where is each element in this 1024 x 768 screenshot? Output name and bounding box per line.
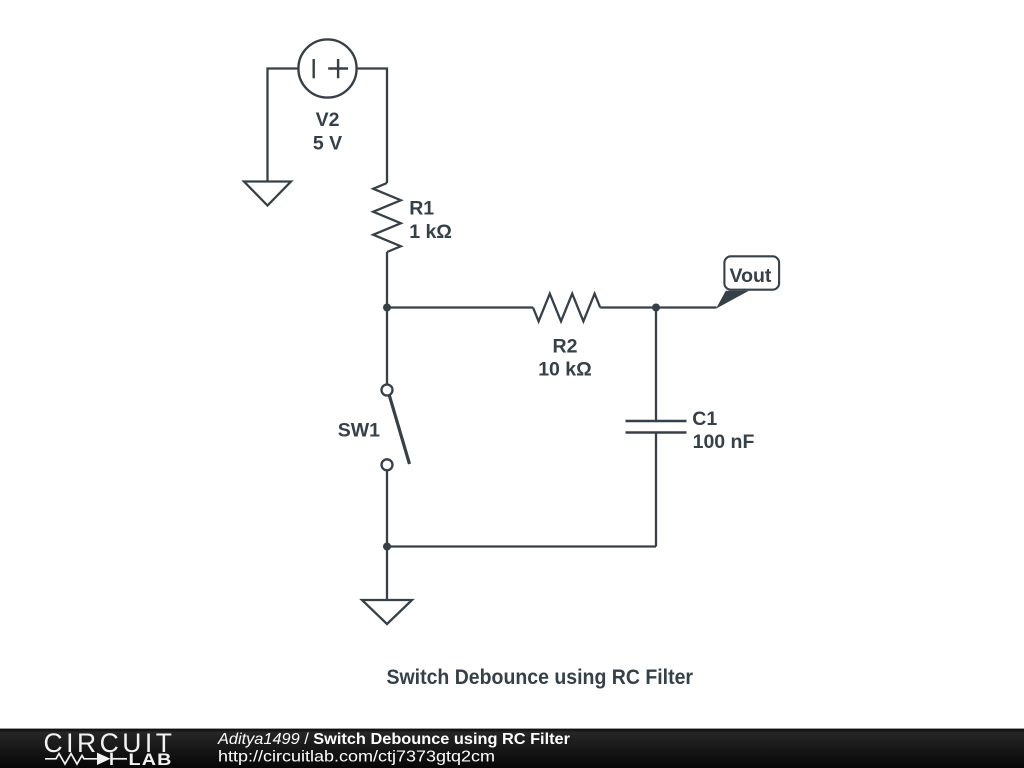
wire C1 bottom plate down (655, 433, 657, 547)
switch SW1 (382, 385, 410, 471)
footer logo diode triangle (97, 753, 111, 765)
wire V2 positive lead to R1 top (356, 69, 387, 184)
svg-text:R2: R2 (553, 335, 578, 357)
V2 minus terminal mark (313, 59, 315, 78)
capacitor C1 (626, 421, 687, 433)
wire node B down to C1 top plate (655, 308, 657, 422)
V2 plus terminal mark (328, 59, 348, 78)
svg-text:C1: C1 (692, 408, 717, 430)
net flag Vout pointer (716, 291, 749, 309)
node C junction dot (383, 543, 391, 551)
wire node B to Vout flag (656, 306, 717, 308)
svg-text:SW1: SW1 (338, 420, 380, 442)
svg-text:1 kΩ: 1 kΩ (409, 221, 452, 243)
wire bottom rail node C to C1 (387, 545, 656, 547)
svg-text:10 kΩ: 10 kΩ (538, 359, 592, 381)
wire node C to ground (386, 547, 388, 601)
wire R1 bottom to node A (386, 252, 388, 308)
wire SW1 bottom terminal to node C (386, 471, 388, 547)
svg-text:100 nF: 100 nF (693, 431, 755, 453)
svg-text:5 V: 5 V (313, 132, 342, 154)
wire node A down to SW1 top terminal (386, 308, 388, 384)
footer bar (0, 729, 1024, 768)
svg-text:Vout: Vout (730, 265, 772, 287)
resistor R1 (373, 183, 401, 252)
wire node A to R2 left (387, 306, 533, 308)
footer logo resistor-diode glyph (45, 753, 127, 765)
ground (bottom) (362, 600, 412, 624)
wire V2 negative lead to ground (268, 69, 298, 182)
svg-text:V2: V2 (316, 109, 340, 131)
svg-text:Aditya1499 / Switch Debounce u: Aditya1499 / Switch Debounce using RC Fi… (217, 731, 570, 748)
net flag Vout box (724, 256, 779, 289)
svg-text:http://circuitlab.com/ctj7373g: http://circuitlab.com/ctj7373gtq2cm (218, 749, 495, 766)
svg-text:R1: R1 (409, 198, 434, 220)
ground (V2) (244, 182, 291, 206)
node B junction dot (652, 304, 660, 312)
voltage source V2 (298, 39, 356, 97)
wire R2 right to node B (600, 306, 656, 308)
node A junction dot (383, 304, 391, 312)
svg-text:Switch Debounce using RC Filte: Switch Debounce using RC Filter (387, 665, 694, 689)
resistor R2 (533, 294, 600, 322)
svg-text:LAB: LAB (129, 749, 173, 768)
